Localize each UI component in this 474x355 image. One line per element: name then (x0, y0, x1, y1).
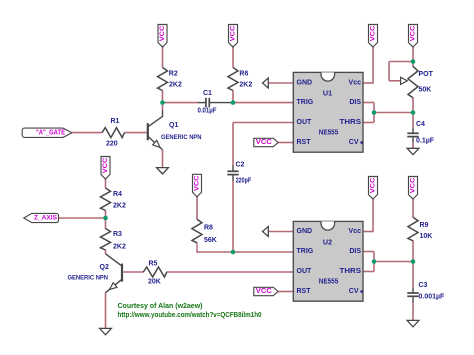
svg-text:50K: 50K (419, 87, 432, 94)
svg-text:OUT: OUT (297, 119, 313, 126)
svg-text:0.01µF: 0.01µF (198, 108, 218, 115)
svg-text:Q2: Q2 (100, 264, 109, 271)
svg-text:VCC: VCC (410, 26, 417, 42)
svg-text:0.1µF: 0.1µF (416, 138, 435, 145)
svg-text:56K: 56K (204, 237, 217, 244)
svg-text:VCC: VCC (230, 26, 237, 42)
svg-text:U1: U1 (323, 89, 332, 98)
svg-text:DIS: DIS (349, 248, 361, 255)
svg-text:2K2: 2K2 (169, 82, 182, 89)
svg-text:POT: POT (419, 71, 434, 78)
svg-text:2K2: 2K2 (113, 243, 126, 250)
svg-text:DIS: DIS (349, 99, 361, 106)
svg-text:VCC: VCC (370, 178, 377, 194)
svg-text:R2: R2 (169, 71, 178, 78)
svg-text:VCC: VCC (410, 178, 417, 194)
svg-text:C4: C4 (416, 121, 425, 128)
svg-text:GND: GND (297, 228, 313, 235)
svg-text:NE555: NE555 (319, 128, 339, 137)
svg-text:RST: RST (297, 288, 312, 295)
svg-text:THRS: THRS (340, 119, 362, 126)
svg-text:Vcc: Vcc (349, 228, 362, 235)
svg-text:VCC: VCC (194, 175, 201, 191)
svg-text:C3: C3 (419, 282, 428, 289)
svg-text:OUT: OUT (297, 268, 313, 275)
svg-text:220: 220 (106, 141, 118, 148)
svg-text:10K: 10K (420, 233, 433, 240)
svg-text:Q1: Q1 (169, 122, 178, 129)
svg-text:C2: C2 (236, 162, 245, 169)
svg-text:2K2: 2K2 (113, 202, 126, 209)
svg-text:R1: R1 (111, 118, 120, 125)
svg-text:http://www.youtube.com/watch?v: http://www.youtube.com/watch?v=QCFB8ilm1… (118, 310, 262, 319)
svg-text:CV: CV (349, 139, 359, 146)
svg-text:VCC: VCC (102, 158, 109, 174)
svg-text:R6: R6 (239, 71, 248, 78)
svg-text:VCC: VCC (370, 26, 377, 42)
svg-text:R8: R8 (204, 225, 213, 232)
svg-text:0.001µF: 0.001µF (419, 294, 446, 301)
svg-text:R5: R5 (149, 261, 158, 268)
svg-text:"A"_GATE: "A"_GATE (36, 129, 65, 136)
svg-text:THRS: THRS (340, 268, 362, 275)
svg-text:RST: RST (297, 139, 312, 146)
svg-text:U2: U2 (323, 238, 332, 247)
svg-text:GENERIC NPN: GENERIC NPN (68, 275, 109, 282)
svg-text:GND: GND (297, 80, 313, 87)
svg-text:Z_AXIS: Z_AXIS (34, 215, 58, 222)
svg-text:VCC: VCC (159, 26, 166, 42)
svg-text:20K: 20K (148, 279, 161, 286)
svg-text:VCC: VCC (256, 139, 272, 146)
svg-text:GENERIC NPN: GENERIC NPN (161, 134, 202, 141)
svg-text:VCC: VCC (256, 288, 272, 295)
svg-text:R4: R4 (113, 191, 122, 198)
svg-text:TRIG: TRIG (297, 248, 314, 255)
svg-text:Vcc: Vcc (349, 80, 362, 87)
svg-text:NE555: NE555 (319, 277, 339, 286)
svg-text:C1: C1 (203, 90, 212, 97)
svg-text:R3: R3 (113, 231, 122, 238)
svg-text:CV: CV (349, 288, 359, 295)
svg-text:Courtesy of Alan (w2aew): Courtesy of Alan (w2aew) (118, 301, 203, 310)
svg-text:2K2: 2K2 (239, 82, 252, 89)
svg-text:220pF: 220pF (236, 178, 252, 185)
svg-text:R9: R9 (420, 222, 429, 229)
svg-text:TRIG: TRIG (297, 99, 314, 106)
